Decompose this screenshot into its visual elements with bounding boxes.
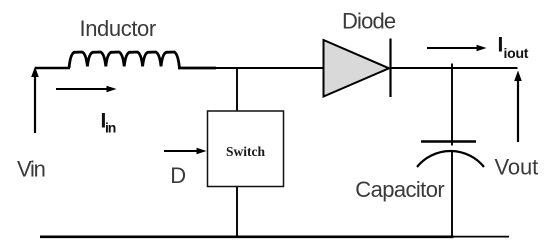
svg-text:Vout: Vout: [495, 155, 539, 180]
svg-text:Capacitor: Capacitor: [355, 177, 444, 202]
svg-text:iout: iout: [504, 45, 529, 61]
svg-text:in: in: [105, 120, 116, 136]
svg-text:D: D: [170, 163, 186, 188]
svg-text:Switch: Switch: [226, 144, 265, 159]
svg-text:Inductor: Inductor: [80, 16, 156, 41]
svg-text:Vin: Vin: [17, 157, 45, 182]
svg-text:Diode: Diode: [342, 9, 396, 34]
svg-text:I: I: [498, 34, 504, 57]
